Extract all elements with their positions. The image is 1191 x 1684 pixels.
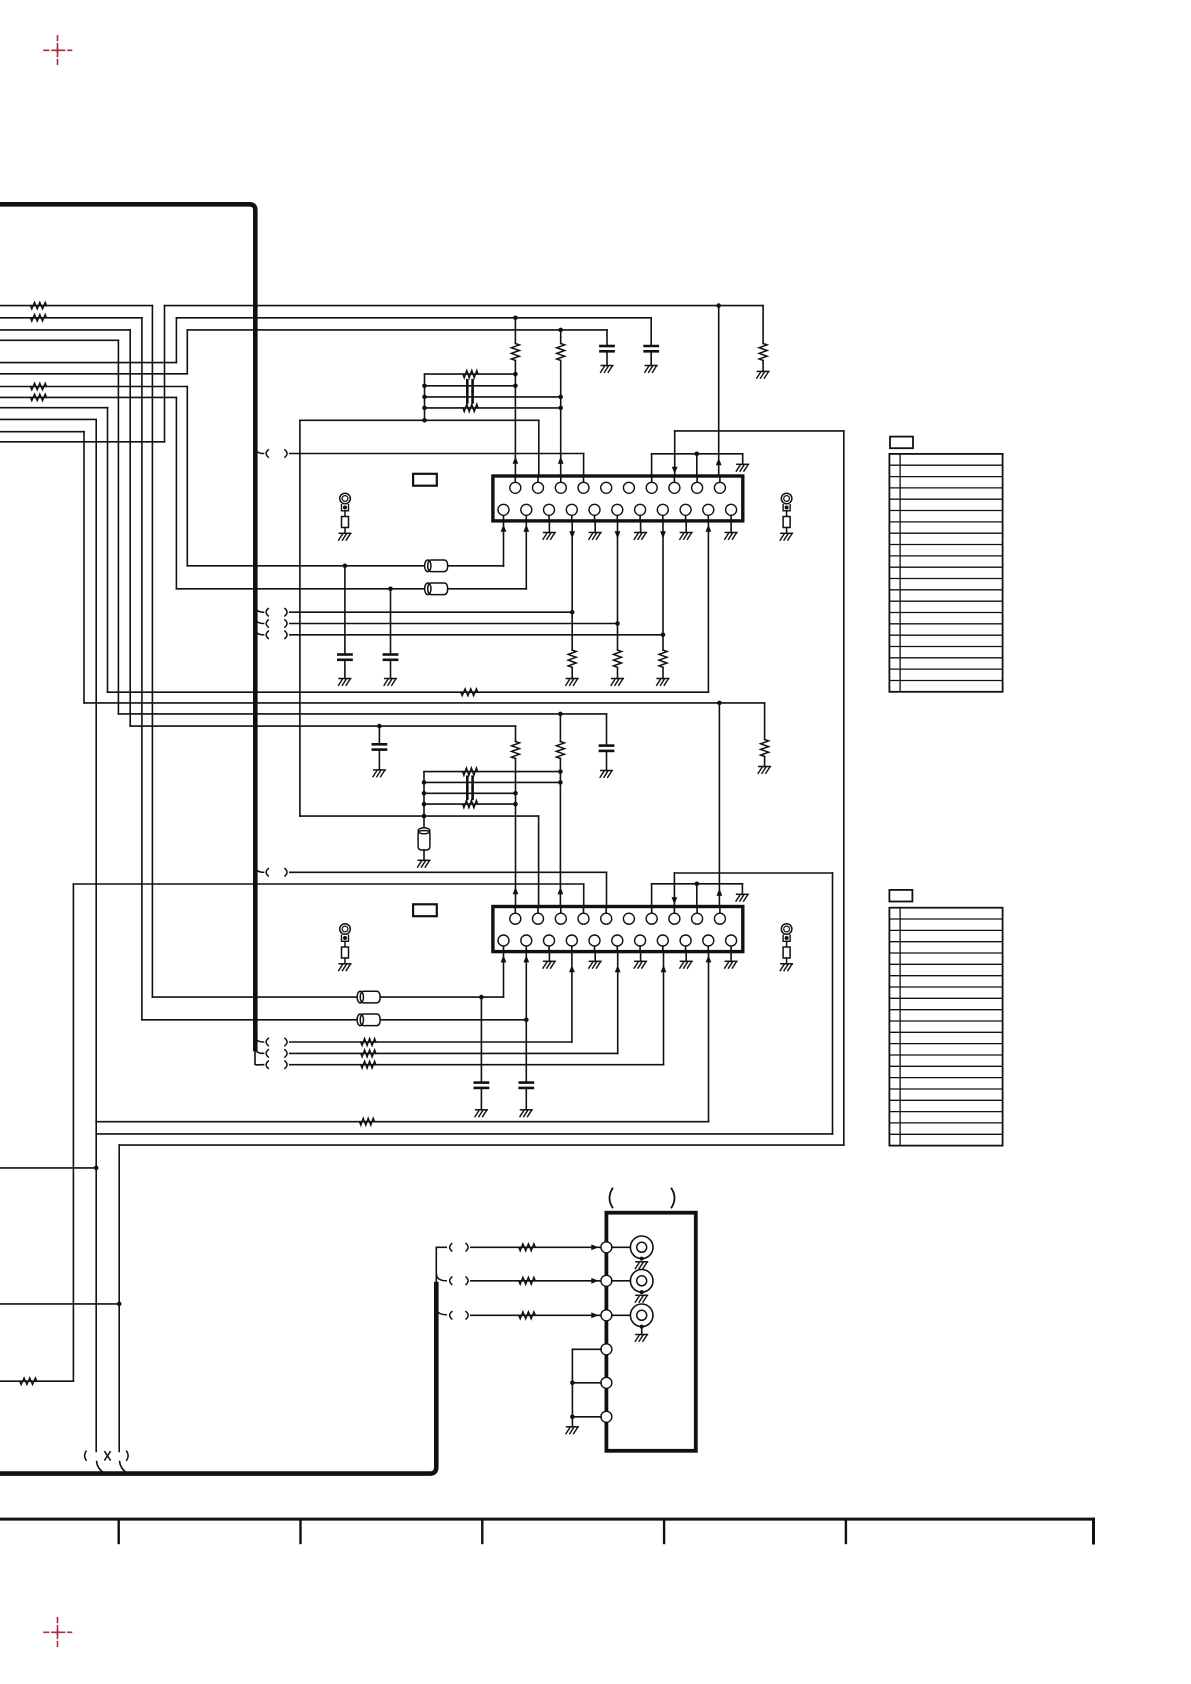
- board outline thick top edge: [0, 204, 255, 1049]
- resistor R102 inline: [31, 315, 47, 321]
- wire C206 lead: [525, 1020, 527, 1083]
- arrow into CN101 pin 8: [672, 467, 678, 474]
- connector CN201 top pin 7: [646, 913, 657, 924]
- wire CN101 pin21 lead: [707, 521, 709, 692]
- wire riser vertical x73: [72, 884, 74, 1381]
- ground CN201 pin18: [634, 961, 646, 968]
- wire CN201 pin17 lead: [617, 952, 619, 1054]
- capacitor C103 in rail2: [467, 380, 472, 391]
- arrow out CN201 pin12: [501, 955, 507, 962]
- inline connector marks R211: [266, 1050, 287, 1057]
- capacitor C106: [384, 655, 397, 660]
- wire CN201 pin15 lead: [571, 952, 573, 1042]
- connector CN101 bottom pin 19: [657, 504, 668, 515]
- ground CN101 pin20: [680, 533, 692, 540]
- wire R107 to CN101 pin 3: [560, 360, 562, 476]
- resistor R302 inline: [519, 1277, 536, 1284]
- connector CN101 body: [493, 476, 743, 521]
- connector CN101 bottom pin 15: [566, 504, 577, 515]
- wire CN201 top pin 5 inner stub: [605, 907, 607, 914]
- wire C206 bottom lead: [525, 1088, 527, 1110]
- wire C102 bottom lead: [606, 351, 608, 365]
- resistor R106: [511, 344, 519, 361]
- wire ladder2 rail2: [424, 781, 560, 783]
- connector CN201 bottom pin 14: [544, 935, 555, 946]
- junction RCA jack 3 shell: [640, 1325, 644, 1329]
- wire bead FB102 line right: [448, 588, 527, 590]
- ground below C102: [601, 366, 613, 373]
- wire hop to CN101 pin 15: [290, 611, 572, 613]
- wire net11 horizontal: [0, 431, 84, 433]
- wire net5 vertical riser: [175, 318, 177, 363]
- ground below FB203: [418, 860, 430, 867]
- terminal lug E202 ground: [780, 964, 792, 971]
- wire CN101 ground rail: [652, 453, 743, 455]
- inline connector marks RCA row 1: [450, 1244, 469, 1251]
- wire FB203 bottom lead: [423, 850, 425, 861]
- inline connector marks wire 19: [266, 631, 287, 638]
- wire CN201 top pin 4 inner stub: [583, 907, 585, 914]
- capacitor C105: [338, 655, 351, 660]
- connector CN101 top pin 3: [555, 482, 566, 493]
- wire RCA gnd pin 6: [572, 1416, 601, 1418]
- arrow into CN101 pin 10: [716, 458, 722, 465]
- connector CN201 bottom pin 20: [680, 935, 691, 946]
- wire node B1 to R106: [514, 318, 516, 344]
- wire net9 to CN101 pin21: [108, 691, 709, 693]
- wire CN201 bottom pin 21 inner stub: [707, 946, 709, 952]
- junction left low 2: [117, 1302, 122, 1307]
- wire hop R212: [290, 1064, 664, 1066]
- wire rail5 drop to CN101 pin 2: [538, 420, 540, 476]
- wire left low 1: [0, 1167, 96, 1169]
- wire left low 2: [0, 1303, 119, 1305]
- connector CN201 bottom pin 22: [726, 935, 737, 946]
- wire net1 horizontal: [0, 305, 152, 307]
- ground below C101: [645, 366, 657, 373]
- wire ladder1 rail5: [300, 419, 539, 421]
- resistor R107: [557, 344, 565, 361]
- ground below C106: [384, 679, 396, 686]
- ground below C202: [373, 770, 385, 777]
- connector CN201 bottom pin 19: [657, 935, 668, 946]
- inline connector marks RCA row 2: [450, 1277, 469, 1284]
- connector CN101 bottom pin 20: [680, 504, 691, 515]
- wire RCA pin 3 to jack: [612, 1314, 631, 1316]
- terminal lug E101: [340, 493, 351, 533]
- arrow into CN201 pin 8: [672, 897, 678, 904]
- arrow out CN101 pin15: [569, 531, 575, 538]
- terminal lug E101 ground: [339, 533, 351, 540]
- ground below resistor x572.2: [566, 679, 578, 686]
- resistor R303 inline: [519, 1312, 536, 1319]
- resistor R206: [512, 742, 520, 759]
- resistor R213 inline: [360, 1118, 375, 1125]
- wire ladder2 rail5: [300, 815, 539, 817]
- wire RCA gnd pin 5: [572, 1382, 601, 1384]
- capacitor C203 in rail2: [467, 777, 472, 788]
- inline connector marks wire 872: [266, 869, 287, 876]
- arrow CN201 pin21: [706, 955, 712, 962]
- wire node C2 to R207: [559, 714, 561, 742]
- junction ground rail2 pin 9: [695, 882, 700, 887]
- RCA block pin 3: [601, 1310, 612, 1321]
- connector CN101 bottom pin 16: [589, 504, 600, 515]
- connector CN201 bottom pin 12: [498, 935, 509, 946]
- ground of CN101 rail: [736, 464, 748, 471]
- wire drop to CN201 pin 5: [606, 872, 608, 906]
- wire hop to CN201 pin 5: [290, 871, 607, 873]
- wire shield stem thin: [435, 1247, 437, 1284]
- hop arc wire 19: [255, 628, 263, 635]
- arrow out CN101 pin17: [615, 531, 621, 538]
- connector CN201 bottom pin 21: [703, 935, 714, 946]
- resistor R108 in rail1: [463, 371, 478, 378]
- wire node A1 to CN101 pin 10: [718, 306, 720, 476]
- RCA jack J2: [630, 1270, 653, 1293]
- terminal lug E202: [781, 924, 792, 964]
- wire net7 horizontal: [0, 386, 187, 388]
- wire CN101 bottom pin 22 inner stub: [730, 515, 732, 521]
- connector CN201 bottom pin 13: [521, 935, 532, 946]
- wire ladder2 rail4: [424, 803, 516, 805]
- wire CN201 pin16 gnd stub: [594, 952, 596, 962]
- junction ladder1 bus rail5: [422, 418, 427, 423]
- wire drop to CN201 pin 4: [583, 884, 585, 907]
- capacitor C101: [645, 346, 658, 351]
- wire RCA gnd pin 4: [572, 1348, 601, 1350]
- wire net11 vertical run: [83, 432, 85, 703]
- wire CN201 top pin 7 inner stub: [651, 907, 653, 914]
- wire C106 lead: [390, 589, 392, 655]
- ground RCA bus: [566, 1427, 578, 1434]
- wire CN101 top pin 7 inner stub: [651, 476, 653, 482]
- wire RCA row 3: [471, 1314, 601, 1316]
- RCA block gnd pin 4: [601, 1344, 612, 1355]
- wire ground rail2 drop: [741, 884, 743, 895]
- wire C101 bottom lead: [650, 351, 652, 365]
- wire CN101 bottom pin 14 inner stub: [548, 515, 550, 521]
- wire CN101 pin14 gnd stub: [548, 521, 550, 533]
- hop arc shield row3: [436, 1308, 446, 1315]
- arrow into RCA pin 3: [591, 1312, 598, 1318]
- wire CN201 pin18 gnd stub: [640, 952, 642, 962]
- wire tail into chassis 1: [97, 1462, 105, 1474]
- ground below C206: [520, 1110, 532, 1117]
- wire CN101 bottom pin 15 inner stub: [571, 515, 573, 521]
- wire net6 vertical riser: [186, 330, 188, 374]
- connector CN101 top pin 1: [510, 482, 521, 493]
- junction pin 19 net: [661, 633, 666, 638]
- junction node A2: [717, 701, 722, 706]
- wire C106 bottom lead: [390, 660, 392, 679]
- wire shield stub row1: [436, 1246, 446, 1248]
- wire net4 horizontal: [0, 339, 118, 341]
- resistor R301 inline: [519, 1244, 536, 1251]
- ground CN201 pin22: [725, 961, 737, 968]
- ground below R205: [758, 767, 770, 774]
- arrow into CN101 pin 1: [513, 457, 519, 464]
- ground RCA jack 2: [635, 1295, 647, 1302]
- connector CN201 top pin 5: [601, 913, 612, 924]
- junction node C2: [558, 712, 563, 717]
- arrow into CN101 pin21: [706, 525, 712, 532]
- connector CN101 bottom pin 14: [544, 504, 555, 515]
- connector CN201 top pin 4: [578, 913, 589, 924]
- wire net9 horizontal: [0, 407, 108, 409]
- wire inter-channel vertical: [299, 420, 301, 816]
- wire bead FB201 line right: [380, 996, 503, 998]
- wire resistor-gnd lead x572.2: [571, 667, 573, 678]
- RCA block parentheses label: [610, 1189, 675, 1208]
- wire frame to CN201 pin 8: [674, 872, 832, 874]
- connector CN101 top pin 2: [533, 482, 544, 493]
- registration mark bottom-left: [44, 1618, 72, 1647]
- wire CN201 bottom pin 18 inner stub: [639, 946, 641, 952]
- arrow CN201 pin17: [615, 965, 621, 972]
- arrow out CN101 pin19: [660, 531, 666, 538]
- arrow into CN201 pin 1: [513, 887, 519, 894]
- wire net8 vertical run: [175, 397, 177, 588]
- wire right frame vertical: [843, 431, 845, 1145]
- wire net2 vertical run: [141, 318, 143, 1020]
- hop arc wire 17: [255, 617, 263, 624]
- wire ladder1 rail2: [425, 385, 516, 387]
- wire CN201 pin19 lead: [663, 952, 665, 1065]
- wire net10 vertical run: [95, 419, 97, 1121]
- RCA block gnd pin 6: [601, 1411, 612, 1422]
- junction C105 tap: [343, 564, 348, 569]
- junction rail3-right: [558, 395, 563, 400]
- wire C201 bottom lead: [606, 751, 608, 771]
- connector CN101 top pin 5: [601, 482, 612, 493]
- wire outer frame left drop: [118, 1145, 120, 1451]
- wire RCA jack 3 gnd lead: [641, 1327, 643, 1335]
- wire CN101 bottom pin 12 inner stub: [503, 515, 505, 521]
- wire CN201 pin 9 stub: [696, 884, 698, 907]
- connector CN201 bottom pin 17: [612, 935, 623, 946]
- wire CN101 pin12 lead: [503, 521, 505, 566]
- wire CN101 bottom pin 17 inner stub: [616, 515, 618, 521]
- resistor R208 in rail1: [463, 768, 478, 775]
- wire CN101 top pin 2 inner stub: [537, 476, 539, 482]
- wire net10 horizontal: [0, 418, 96, 420]
- wire C202 bottom lead: [378, 750, 380, 770]
- wire R205 bottom lead: [764, 757, 766, 767]
- resistor R212 inline: [361, 1061, 376, 1068]
- wire C102 top lead: [606, 330, 608, 346]
- wire CN101 bottom pin 21 inner stub: [707, 515, 709, 521]
- junction left low 1: [94, 1166, 99, 1171]
- resistor R214 inline: [20, 1378, 37, 1384]
- wire CN101 bottom pin 13 inner stub: [525, 515, 527, 521]
- capacitor C206: [520, 1083, 533, 1088]
- junction RCA gnd bus 1: [570, 1381, 575, 1386]
- inline connector marks wire 15: [266, 609, 287, 616]
- wire net6 horizontal: [0, 373, 187, 375]
- wire hop to CN101 pin 19: [290, 634, 663, 636]
- junction ground rail pin 9: [695, 452, 700, 457]
- wire drop to CN201 pin 8: [673, 873, 675, 907]
- wire ground rail drop: [742, 454, 744, 465]
- wire inner frame bottom: [96, 1133, 832, 1135]
- wire CN101 pin 9 stub: [696, 454, 698, 476]
- wire bus D2 to circuit 2: [130, 725, 515, 727]
- wire CN101 bottom pin 16 inner stub: [594, 515, 596, 521]
- inline connector marks wire 17: [266, 620, 287, 627]
- junction ladder1 bus rail4: [422, 406, 427, 411]
- wire tail into chassis 2: [120, 1462, 128, 1474]
- junction rail1-right: [513, 372, 518, 377]
- wire resistor-gnd lead x617.5: [617, 667, 619, 678]
- wire CN101 pin18 gnd stub: [640, 521, 642, 533]
- wire CN201 bottom pin 17 inner stub: [616, 946, 618, 952]
- junction C205 tap: [479, 995, 484, 1000]
- connector CN101 top pin 4: [578, 482, 589, 493]
- RCA block pin 1: [601, 1242, 612, 1253]
- wire CN201 ground rail: [652, 883, 743, 885]
- ground CN201 pin16: [589, 961, 601, 968]
- wire net8 horizontal: [0, 396, 176, 398]
- junction rail2-right: [513, 384, 518, 389]
- ground CN201 pin20: [680, 961, 692, 968]
- resistor R110 inline: [461, 689, 478, 696]
- label box CN201: [413, 904, 437, 916]
- ferrite bead FB102: [425, 583, 448, 595]
- wire C101 top lead: [650, 318, 652, 346]
- terminal lug E201: [340, 924, 351, 964]
- wire R206 to CN201 pin 1: [515, 759, 517, 907]
- wire CN101 top pin 3 inner stub: [560, 476, 562, 482]
- ground RCA jack 3: [635, 1335, 647, 1342]
- capacitor C102: [600, 346, 613, 351]
- wire CN101 pin19 lead: [662, 521, 664, 650]
- connector CN101 bottom pin 22: [726, 504, 737, 515]
- wire RCA row 1: [471, 1246, 601, 1248]
- wire hop to CN101 pin 4: [290, 453, 584, 455]
- wire ladder2 rail1: [424, 771, 560, 773]
- wire CN201 pin20 gnd stub: [685, 952, 687, 962]
- resistor R109 in rail4: [463, 404, 478, 411]
- inline connector marks R212: [266, 1061, 287, 1068]
- wire CN101 bottom pin 19 inner stub: [662, 515, 664, 521]
- arrow into CN201 pin 10: [717, 889, 723, 896]
- wire CN201 bottom pin 16 inner stub: [594, 946, 596, 952]
- ground below resistor x663.0: [657, 679, 669, 686]
- connector CN101 bottom pin 13: [521, 504, 532, 515]
- wire CN201 bottom pin 22 inner stub: [730, 946, 732, 952]
- junction node D2 cap tap: [377, 724, 382, 729]
- wire ladder2 left bus: [423, 772, 425, 828]
- wire CN201 bottom pin 20 inner stub: [685, 946, 687, 952]
- wire RCA pin 2 to jack: [612, 1280, 631, 1282]
- connector CN101 top pin 8: [669, 482, 680, 493]
- wire riser to CN201 pin 4: [73, 883, 583, 885]
- resistor R101 inline: [31, 302, 47, 308]
- fold ruler with ticks: [0, 1519, 1094, 1543]
- junction RCA jack 2 shell: [640, 1290, 644, 1294]
- connector CN201 body: [493, 907, 743, 952]
- ground of CN201 rail: [736, 894, 748, 901]
- hop arc wire R211: [255, 1048, 263, 1054]
- arrow into RCA pin 1: [591, 1244, 598, 1250]
- capacitor C205: [475, 1083, 488, 1088]
- wire CN101 top pin 1 inner stub: [514, 476, 516, 482]
- resistor R205: [761, 740, 769, 757]
- terminal lug E201 ground: [339, 964, 351, 971]
- RCA jack J3: [630, 1304, 653, 1327]
- wire CN201 bottom pin 13 inner stub: [525, 946, 527, 952]
- wire R105 bottom lead: [762, 360, 764, 371]
- ground below C205: [475, 1110, 487, 1117]
- junction ladder2 bus rail4: [422, 802, 427, 807]
- ground RCA jack 1: [635, 1262, 647, 1269]
- RCA jack J1: [630, 1236, 653, 1259]
- wire CN101 pin15 lead: [571, 521, 573, 650]
- wire inner frame vertical: [832, 873, 834, 1134]
- connector CN201 top pin 9: [692, 913, 703, 924]
- inline connector marks wire 453: [266, 450, 287, 457]
- wire CN101 pin17 lead: [617, 521, 619, 650]
- arrow into CN101 pin 3: [558, 457, 564, 464]
- wire CN101 top pin 8 inner stub: [673, 476, 675, 482]
- hop arc shield row2: [436, 1274, 446, 1281]
- ferrite bead FB101: [425, 560, 448, 572]
- pin table for CN201: [889, 890, 1002, 1146]
- resistor to ground at x617.5: [614, 650, 622, 667]
- wire drop to CN101 pin 4: [583, 454, 585, 477]
- ferrite bead FB202: [357, 1014, 380, 1026]
- ferrite bead FB203 vertical: [418, 828, 430, 850]
- hop arc from board line: [255, 447, 263, 454]
- connector CN101 bottom pin 21: [703, 504, 714, 515]
- wire bead FB101 line right: [448, 565, 504, 567]
- wire CN201 bottom pin 12 inner stub: [503, 946, 505, 952]
- wire node D2 to R206: [515, 726, 517, 741]
- arrow out CN101 pin13: [523, 525, 529, 532]
- wire CN101 bottom pin 18 inner stub: [639, 515, 641, 521]
- wire CN201 bottom pin 14 inner stub: [548, 946, 550, 952]
- junction C106 tap: [388, 587, 393, 592]
- junction node B1: [513, 316, 518, 321]
- wire rail5 drop to CN201 pin 2: [538, 816, 540, 906]
- junction RCA gnd bus 2: [570, 1415, 575, 1420]
- wire R105 top lead: [762, 306, 764, 344]
- wire CN201 bottom pin 19 inner stub: [662, 946, 664, 952]
- wire R106 to CN101 pin 1: [514, 360, 516, 476]
- wire ladder2 rail3: [424, 792, 516, 794]
- resistor R103 inline: [31, 383, 47, 389]
- junction rail3b-right: [513, 791, 518, 796]
- wire RCA row 2: [471, 1280, 601, 1282]
- wire net7 vertical run: [186, 387, 188, 566]
- arrow out CN101 pin12: [501, 525, 507, 532]
- junction ladder2 bus rail3: [422, 791, 427, 796]
- wire CN201 pin21 lead: [708, 952, 710, 1122]
- wire bead FB101 line left: [187, 565, 424, 567]
- junction rail1b-right: [558, 769, 563, 774]
- wire CN201 pin12 lead: [503, 952, 505, 998]
- wire CN101 pin13 lead: [525, 521, 527, 589]
- ground CN101 pin14: [543, 533, 555, 540]
- junction ladder2 bus rail2: [422, 780, 427, 785]
- wire RCA pin 1 to jack: [612, 1246, 631, 1248]
- wire C105 lead: [344, 566, 346, 655]
- connector CN201 bottom pin 15: [566, 935, 577, 946]
- wire CN201 pin 7 stub: [651, 884, 653, 907]
- hop arc wire R210: [255, 1036, 263, 1042]
- RCA block pin 2: [601, 1275, 612, 1286]
